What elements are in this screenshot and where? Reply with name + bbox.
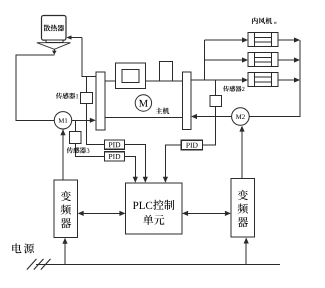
wire: power line to left inverter	[64, 244, 66, 265]
wire: feeder to fan2	[205, 59, 244, 61]
flow arrow from funnel to wire	[53, 49, 55, 51]
PID controller 2	[104, 152, 124, 161]
radiator outlet neck	[46, 40, 63, 42]
sensor box 传感器2	[210, 95, 222, 106]
wire: power line to right inverter	[245, 244, 247, 265]
machine body bottom line	[105, 117, 183, 119]
wire: M2 down to right inverter	[241, 131, 243, 179]
left end-plate	[96, 72, 105, 130]
wire: M1 to left end-plate with arrow	[72, 119, 91, 121]
sensor box 传感器3	[70, 131, 81, 143]
wire: M1 down to left inverter	[62, 129, 64, 180]
radiator box 散热器	[42, 16, 67, 41]
wire: radiator feed down to left end-plate	[82, 38, 96, 77]
wire: PID1 to PLC	[125, 145, 146, 177]
power source slashes	[27, 259, 51, 270]
sensor box 传感器1	[81, 92, 93, 103]
inverter box 变频器 (right)	[231, 179, 255, 238]
motor M2	[232, 108, 250, 126]
right end-plate	[183, 72, 191, 130]
fan unit 1	[248, 33, 278, 47]
arrow into radiator right side	[71, 37, 82, 39]
fan unit 2	[248, 53, 278, 67]
fan unit 3	[248, 73, 278, 87]
radiator discharge funnel	[37, 43, 71, 50]
wire: end-plate to fan3	[191, 79, 243, 81]
monitor box on machine	[115, 63, 145, 88]
label 传感器1	[56, 93, 62, 99]
wire: fan1 to right bus	[278, 39, 295, 41]
wire: sensor2 to PID3	[203, 106, 216, 145]
wire: drop to sensor2	[215, 80, 217, 95]
double arrow PLC - right inverter	[183, 212, 230, 214]
motor M 主机	[135, 95, 151, 111]
wire: drop to sensor3	[74, 120, 76, 131]
wire: funnel drop to M1 loop (left side)	[16, 55, 54, 121]
motor M1	[54, 112, 71, 129]
wire: sensor1 to PID1	[87, 104, 105, 145]
label 传感器3	[67, 147, 73, 153]
fan feeder riser	[204, 40, 206, 80]
label 内风机	[252, 17, 258, 24]
wire: feeder to fan1	[205, 39, 244, 41]
label 电源	[12, 243, 21, 253]
wire: drop to sensor1	[86, 77, 88, 93]
wire: sensor3 to PID2	[75, 143, 104, 156]
wire: M2 to right end-plate with arrow	[197, 116, 232, 118]
wire: PID2 to PLC	[125, 156, 136, 177]
label 传感器2	[223, 86, 229, 92]
PID controller 1	[104, 140, 124, 149]
machine body top line	[105, 80, 183, 82]
PID controller 3	[181, 140, 202, 150]
PLC control unit box	[126, 183, 183, 234]
wire: PID3 to PLC	[165, 145, 181, 177]
wire: fan3 to right bus	[278, 79, 295, 81]
right bus down to M2 line	[249, 40, 300, 117]
double arrow left inverter - PLC	[79, 212, 125, 214]
inverter box 变频器 (left)	[54, 180, 78, 238]
small box on machine	[160, 62, 173, 81]
wire: fan2 to right bus	[278, 59, 295, 61]
power line	[36, 263, 280, 265]
